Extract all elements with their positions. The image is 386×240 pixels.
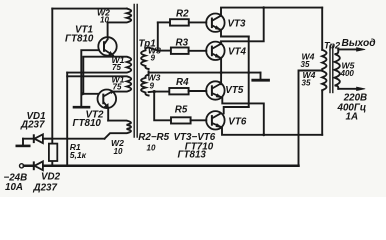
svg-text:VT6: VT6 — [228, 117, 247, 128]
svg-text:10: 10 — [114, 147, 123, 156]
svg-text:Д237: Д237 — [20, 120, 45, 131]
svg-text:R2−R5: R2−R5 — [138, 132, 169, 143]
svg-text:10А: 10А — [5, 182, 23, 193]
svg-text:10: 10 — [147, 143, 156, 152]
svg-text:ГТ810: ГТ810 — [65, 34, 94, 45]
svg-text:ГТ813: ГТ813 — [178, 150, 207, 161]
svg-text:10: 10 — [100, 15, 109, 24]
svg-text:9: 9 — [150, 82, 155, 91]
svg-text:1А: 1А — [346, 112, 359, 123]
svg-text:R5: R5 — [175, 105, 188, 116]
svg-text:75: 75 — [113, 82, 122, 91]
svg-text:VT5: VT5 — [225, 85, 244, 96]
svg-text:VT3: VT3 — [228, 18, 247, 29]
svg-text:Д237: Д237 — [33, 183, 58, 194]
svg-text:9: 9 — [151, 54, 156, 63]
svg-text:5,1к: 5,1к — [70, 150, 87, 160]
svg-text:R2: R2 — [176, 9, 189, 20]
svg-text:35: 35 — [301, 60, 310, 69]
svg-text:75: 75 — [112, 63, 121, 72]
svg-text:35: 35 — [302, 78, 311, 87]
svg-text:Выход: Выход — [342, 38, 376, 49]
svg-text:Тр2: Тр2 — [324, 40, 341, 50]
svg-text:VD2: VD2 — [41, 172, 61, 183]
svg-text:ГТ810: ГТ810 — [73, 118, 102, 129]
svg-text:400: 400 — [340, 69, 355, 78]
svg-text:R4: R4 — [176, 77, 189, 88]
svg-text:R3: R3 — [176, 37, 189, 48]
svg-text:VT4: VT4 — [228, 47, 247, 58]
